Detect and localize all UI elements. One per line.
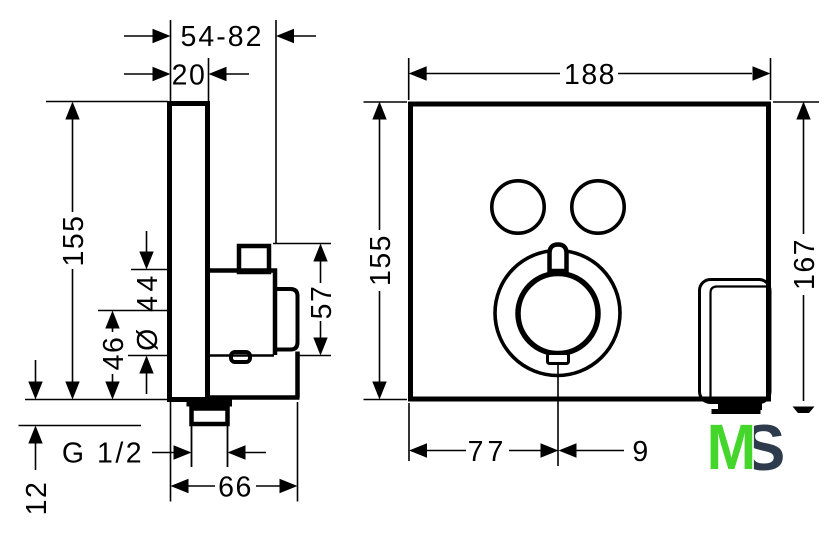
dim 167 xyxy=(803,120,805,235)
svg-text:66: 66 xyxy=(218,472,253,504)
G12 right arrow (left-pointing) xyxy=(228,445,246,459)
diverter button outer xyxy=(700,280,771,403)
svg-text:20: 20 xyxy=(172,60,207,92)
dim 57 line xyxy=(320,261,322,283)
knob inner ring xyxy=(518,274,598,354)
ext top-left (155) xyxy=(364,101,408,103)
57 top arrow xyxy=(313,244,327,262)
handle (rounded right profile) xyxy=(273,289,298,350)
tick body bottom left (O44 bottom) xyxy=(128,355,168,357)
155 bottom arrow xyxy=(65,382,79,400)
dim 155 line xyxy=(72,120,74,213)
small circle left xyxy=(492,181,544,233)
O44 top arrow (down) xyxy=(139,252,153,270)
extension line plate rear face xyxy=(208,58,210,101)
dim 77 line xyxy=(426,450,466,452)
extension line left face top xyxy=(170,20,172,101)
dim 9 line xyxy=(576,450,624,452)
dim 57 ext lines xyxy=(273,243,331,245)
ext bottom-left xyxy=(364,399,408,401)
66 left arrow xyxy=(171,479,189,493)
wall plate (side profile) xyxy=(170,104,208,400)
57 bottom arrow xyxy=(313,338,327,356)
outlet pipe lines xyxy=(191,426,193,467)
188 left arrow xyxy=(409,66,427,80)
20 left arrow xyxy=(153,67,171,81)
retaining clip xyxy=(231,352,250,362)
svg-text:46: 46 xyxy=(98,336,130,371)
small circle right xyxy=(572,181,624,233)
tick nut bottom (12) xyxy=(19,425,142,427)
svg-text:57: 57 xyxy=(306,285,338,320)
54-82 right arrow xyxy=(276,29,294,43)
ext lines for 66 xyxy=(170,402,172,502)
svg-text:77: 77 xyxy=(468,436,508,468)
188 right arrow xyxy=(753,66,771,80)
167 top arrow xyxy=(796,102,810,120)
77 left arrow xyxy=(409,443,427,457)
svg-text:Ø 44: Ø 44 xyxy=(132,271,164,351)
svg-text:G 1/2: G 1/2 xyxy=(62,438,144,470)
dim O44 tails xyxy=(146,231,148,253)
G12 left arrow (right-pointing) xyxy=(174,445,192,459)
54-82 left arrow xyxy=(153,29,171,43)
155R bottom arrow xyxy=(372,382,386,400)
svg-text:12: 12 xyxy=(21,481,53,516)
svg-text:155: 155 xyxy=(58,214,90,266)
outlet flange (black) xyxy=(187,400,233,407)
dim 54-82 line xyxy=(124,35,153,37)
svg-text:155: 155 xyxy=(365,234,397,286)
svg-text:M: M xyxy=(707,412,757,483)
tick valve centre xyxy=(98,310,168,312)
lower body right edge and bottom xyxy=(205,352,300,398)
top protrusion box xyxy=(239,246,269,272)
46 bottom arrow (down) xyxy=(105,382,119,400)
ext left bottom (77) xyxy=(408,403,410,461)
knob top notch xyxy=(550,245,567,272)
46 top arrow (up) xyxy=(105,311,119,329)
ext line bottom of plate going left xyxy=(25,399,168,401)
knob bottom tab xyxy=(548,354,569,364)
extension line wall plane xyxy=(275,20,277,243)
155 top arrow xyxy=(65,102,79,120)
outlet nut xyxy=(192,409,228,425)
66 right arrow xyxy=(280,479,298,493)
ext lines 188 xyxy=(408,58,410,100)
77 right arrow xyxy=(541,443,559,457)
face plate xyxy=(411,104,769,399)
dim 155 right view xyxy=(379,120,381,231)
centre line below knob xyxy=(557,365,559,466)
12 bottom arrow (up) xyxy=(28,426,42,444)
155R top arrow xyxy=(372,102,386,120)
svg-text:54-82: 54-82 xyxy=(181,21,264,53)
dim 46 tails xyxy=(112,327,114,332)
ext line top of plate going left (155 top) xyxy=(46,101,168,103)
167 bottom arrow (flat trapezoid) xyxy=(793,407,815,414)
12 top arrow (down) xyxy=(28,382,42,400)
knob outer circle xyxy=(495,251,620,376)
9 left arrow xyxy=(559,443,577,457)
svg-text:9: 9 xyxy=(632,436,649,468)
20 right arrow xyxy=(209,67,227,81)
diverter foot (black) xyxy=(718,402,762,410)
cartridge bottom thin line xyxy=(208,354,274,357)
dim 66 line xyxy=(188,485,215,487)
O44 bottom arrow (up) xyxy=(139,356,153,374)
dim 188 line xyxy=(426,73,560,75)
svg-text:188: 188 xyxy=(564,59,616,91)
dim 12 tails xyxy=(35,360,37,382)
diverter inner bevel xyxy=(711,287,770,401)
svg-text:167: 167 xyxy=(789,238,821,290)
ext top-right (167) xyxy=(773,101,819,103)
dim 20 line xyxy=(124,73,153,75)
G 1/2 arrows tails xyxy=(152,452,174,454)
tick body top (O44 top) xyxy=(131,269,168,271)
upper valve body (top and right edges) xyxy=(206,271,275,356)
